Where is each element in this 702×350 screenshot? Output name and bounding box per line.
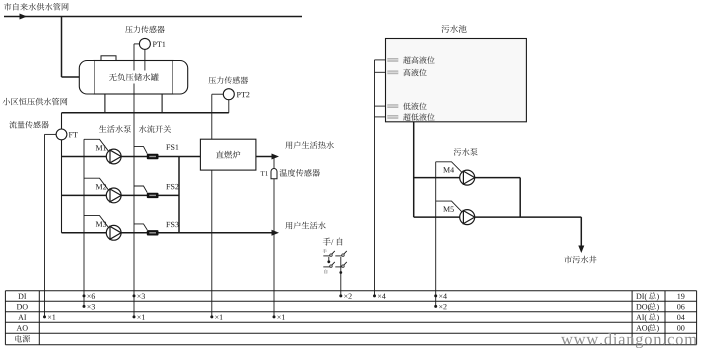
temperature sensor T1 温度传感器 <box>271 169 277 179</box>
callout leader for pump M3 <box>84 216 109 228</box>
wire junction dots and channel counts <box>43 315 46 318</box>
wire: M4 discharge drop to M5 line <box>519 178 521 218</box>
wire: pump M1-M3 control bundle to I/O table <box>83 139 85 306</box>
flow arrow on supply line <box>20 14 28 20</box>
pump M5 <box>460 210 475 225</box>
label M2 <box>96 184 103 189</box>
wire: PT1 stem into tank <box>144 49 146 71</box>
label 手/自 (hand/auto) <box>323 238 331 246</box>
tank label 无负压储水罐 <box>107 71 161 84</box>
label FS2 <box>166 184 170 189</box>
watermark www.diangon.com <box>561 337 573 345</box>
wire: municipal supply main line <box>4 16 302 18</box>
wire: hot water outlet with arrow 用户生活热水 <box>256 156 272 158</box>
wire: T1 signal line down to I/O table <box>273 179 275 317</box>
pump M2 <box>106 188 121 203</box>
furnace 直燃炉 <box>200 139 256 170</box>
label M4 <box>443 167 450 172</box>
label 水流开关 (flow switches) <box>139 125 147 133</box>
label M3 <box>96 222 103 227</box>
pump M4 <box>460 170 475 185</box>
callout leader for pump M1 <box>84 139 109 151</box>
flow switch FS3 <box>147 230 159 235</box>
wire: discharge manifold vertical <box>178 157 180 233</box>
wire: M4 suction/discharge pipe <box>414 177 521 179</box>
level sensor 低液位 <box>387 104 398 108</box>
wire: pipe into furnace <box>179 156 200 158</box>
wire: 高液位 signal stub <box>375 71 386 73</box>
table row labels <box>18 294 23 299</box>
callout leader for pump M5 <box>436 201 462 212</box>
label M5 <box>443 207 450 212</box>
pressure sensor PT2 <box>209 77 216 84</box>
label FS3 <box>166 222 170 227</box>
wire: manifold down to pump suction header <box>61 113 63 129</box>
callout leader for flow switch FS2 <box>134 186 147 193</box>
flow sensor FT 流量传感器 <box>9 121 16 128</box>
wire: pump branch pipe 1 <box>62 156 180 158</box>
wire: T1 stem from hot water pipe <box>273 157 275 169</box>
callout leader for pump M4 <box>436 162 462 173</box>
wire: sewage pump control bundle to I/O table <box>435 162 437 307</box>
flow switch FS2 <box>147 193 159 198</box>
pump M3 <box>106 225 121 240</box>
wire: discharge to municipal sewage well with arrow <box>580 217 582 246</box>
wire: hand/auto DI signals to I/O table <box>340 273 342 296</box>
tank manhole <box>101 56 116 61</box>
wire: tank outlet right <box>161 94 163 113</box>
wire: PT2 signal line down to I/O table <box>212 93 224 95</box>
level sensor 超高液位 <box>387 58 398 62</box>
wire: pump branch pipe 2 <box>62 194 180 196</box>
wire: domestic cold water line with arrow 用户生活水 <box>179 232 272 234</box>
pressure sensor PT1 <box>125 26 132 33</box>
tank: 无负压储水罐 storage tank <box>94 61 173 95</box>
wire: PT1 signal line down to I/O table <box>134 43 139 45</box>
node: municipal water supply label 市自来水供水管网 <box>4 3 12 11</box>
wire: M5 pipe <box>414 216 582 218</box>
wire: 超高液位 signal stub <box>375 59 386 61</box>
callout leader for flow switch FS3 <box>134 224 147 230</box>
wire: pool level signal bundle to I/O table <box>374 60 376 296</box>
hand/auto selector contacts <box>323 255 330 257</box>
pump M1 <box>106 149 121 164</box>
wire: 超低液位 signal stub <box>375 116 386 118</box>
label FS1 <box>166 145 170 150</box>
sewage pool 污水池 <box>441 25 449 33</box>
wire: pool outlet down to sewage pumps <box>413 122 415 217</box>
callout leader for flow switch FS1 <box>134 147 147 154</box>
level sensor 高液位 <box>387 70 398 74</box>
wire: constant-pressure manifold 小区恒压供水管网 <box>62 112 229 114</box>
level sensor 超低液位 <box>387 115 398 119</box>
label 污水泵 (sewage pumps) <box>454 148 462 155</box>
wire: FT signal line down to I/O table <box>45 133 57 135</box>
flow switch FS1 <box>147 154 159 159</box>
wire: 低液位 signal stub <box>375 105 386 107</box>
wire: pump branch pipe 3 <box>62 232 180 234</box>
label M1 <box>96 145 103 150</box>
table totals column <box>636 294 641 299</box>
I/O summary table <box>5 290 696 292</box>
wire: drop from supply to tank inlet <box>61 17 63 78</box>
callout leader for pump M2 <box>84 178 109 190</box>
wire: tank outlet left <box>104 94 106 113</box>
label 生活水泵 (domestic pumps) <box>99 125 107 132</box>
